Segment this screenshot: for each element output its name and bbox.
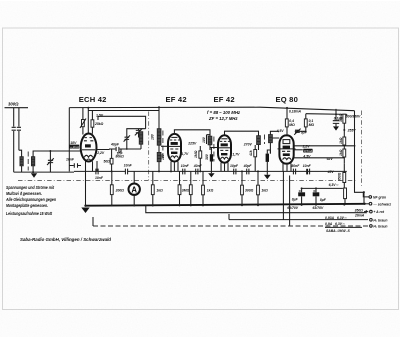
- svg-text:10pF: 10pF: [230, 164, 239, 168]
- tube V1 ECH42 envelope: [81, 134, 97, 162]
- terminal schwarz: [369, 202, 372, 205]
- svg-text:200Ω: 200Ω: [115, 188, 125, 192]
- label 0,5mA black: [303, 149, 312, 153]
- capacitor C7: [109, 148, 128, 150]
- V2 grid through line: [169, 145, 181, 147]
- wire L2 to grid: [33, 151, 81, 157]
- wire rail to IF1: [158, 107, 160, 128]
- core L1/L2: [27, 152, 29, 171]
- V2 internal grids: [170, 139, 180, 141]
- svg-text:SABA–UKW–S: SABA–UKW–S: [326, 229, 350, 233]
- wire c8: [127, 129, 146, 149]
- svg-text:H₂ braun: H₂ braun: [373, 225, 387, 229]
- V3 heater arcs: [221, 157, 229, 159]
- antenna T bar: [5, 107, 29, 109]
- svg-text:300/350V: 300/350V: [346, 115, 361, 119]
- capacitor C5 10n: [96, 169, 98, 175]
- svg-text:300: 300: [205, 154, 209, 160]
- V2 grid dashes2: [170, 148, 178, 150]
- svg-text:40nF: 40nF: [193, 164, 203, 168]
- node bottom: [32, 171, 34, 173]
- svg-text:— schwarz: — schwarz: [372, 202, 391, 206]
- svg-text:1kΩ: 1kΩ: [339, 149, 343, 156]
- V2 heater arcs: [171, 156, 179, 158]
- wire V2 grid line: [161, 145, 168, 147]
- wire grid left into tube: [69, 146, 72, 148]
- resistor R17: [179, 171, 181, 205]
- svg-text:1kΩ: 1kΩ: [339, 137, 343, 144]
- screen rail right: [306, 113, 347, 116]
- wire to trimmer C3: [49, 151, 51, 160]
- svg-text:ZF = 12,7 MHz: ZF = 12,7 MHz: [208, 116, 238, 121]
- antenna lead 2: [18, 108, 20, 151]
- coil L8: [269, 135, 273, 143]
- svg-text:3MΩ: 3MΩ: [182, 188, 190, 192]
- trimmer C8 4p: [125, 137, 130, 139]
- ground antenna: [31, 173, 37, 177]
- capacitor antenna 2: [17, 127, 21, 130]
- capacitor antenna 1: [12, 127, 16, 130]
- wire grid EQ80: [272, 130, 305, 138]
- capacitor C17: [333, 121, 339, 124]
- resistor R16 1k: [152, 171, 154, 205]
- svg-text:Saba-Radio GmbH, Villingen / S: Saba-Radio GmbH, Villingen / Schwarzwald: [20, 237, 111, 242]
- bus junction dots: [111, 205, 113, 207]
- wire rail to IF2: [207, 135, 211, 144]
- svg-text:H₁ braun: H₁ braun: [373, 218, 387, 222]
- node dots on line: [170, 170, 172, 172]
- svg-text:1kΩ: 1kΩ: [156, 188, 163, 192]
- V4 inner grid dashes: [282, 150, 290, 152]
- svg-text:10nF: 10nF: [124, 164, 133, 168]
- coil L7 IF3 primary: [257, 136, 261, 145]
- V4 heater arcs: [283, 158, 291, 160]
- svg-text:80kΩ: 80kΩ: [116, 155, 125, 159]
- svg-text:+ A rot: + A rot: [373, 210, 384, 214]
- svg-text:Montageplatte gemessen.: Montageplatte gemessen.: [6, 203, 48, 208]
- resistor R11: [343, 137, 346, 145]
- svg-text:50nF: 50nF: [291, 164, 300, 168]
- ground EQ80: [264, 175, 271, 180]
- arrow A plus: [364, 210, 367, 211]
- svg-text:25kΩ: 25kΩ: [94, 122, 104, 126]
- osc box top wire: [98, 116, 146, 128]
- shield IF1 dash-dot: [148, 112, 150, 181]
- V4 grid through line: [278, 148, 296, 150]
- core IF2: [213, 137, 215, 162]
- svg-text:1kΩ: 1kΩ: [261, 189, 268, 193]
- wire antenna to coil L1: [19, 150, 22, 157]
- wire V3 anode jog: [225, 131, 259, 135]
- resistor R1: [82, 120, 85, 127]
- wire trimmer to bottom: [49, 163, 51, 172]
- resistor R6: [254, 150, 257, 157]
- svg-text:41k: 41k: [249, 149, 253, 157]
- svg-text:30kΩ: 30kΩ: [339, 113, 343, 122]
- tube V2 EF42 envelope: [168, 134, 181, 162]
- svg-text:350Ω: 350Ω: [338, 172, 342, 181]
- terminal H1: [370, 219, 373, 222]
- V1 grid line: [82, 149, 95, 151]
- svg-text:225V: 225V: [187, 142, 197, 146]
- svg-text:NF grün: NF grün: [373, 196, 386, 200]
- label 0,4mA black box: [69, 145, 79, 149]
- svg-text:ECH 42: ECH 42: [79, 95, 107, 104]
- bottom wire left: [14, 171, 74, 173]
- svg-text:A: A: [131, 185, 137, 194]
- svg-text:2,2V: 2,2V: [96, 151, 105, 155]
- heater H1 line: [229, 214, 368, 220]
- resistor R3 50ohm: [110, 158, 113, 164]
- svg-text:100: 100: [151, 134, 155, 140]
- wire rail to ECH42 anode: [87, 108, 89, 134]
- node c7: [126, 148, 128, 150]
- resistor R21 1k: [257, 171, 259, 205]
- coil L5 IF1 secondary: [157, 152, 161, 161]
- svg-text:350Ω: 350Ω: [355, 208, 364, 212]
- wire V2 pins down: [171, 161, 178, 171]
- long line under tubes: [74, 170, 347, 172]
- wire grid2: [97, 148, 109, 151]
- svg-text:0,5mA: 0,5mA: [304, 149, 312, 153]
- svg-text:100: 100: [202, 137, 206, 143]
- svg-text:1MΩ: 1MΩ: [194, 150, 198, 158]
- svg-text:63/70V: 63/70V: [287, 206, 298, 210]
- svg-text:300Ω: 300Ω: [8, 102, 19, 107]
- resistor R10 30k: [343, 114, 346, 123]
- V1 cathode blob: [85, 144, 91, 147]
- resistor R20 300: [241, 171, 243, 205]
- ground main: [81, 208, 89, 214]
- heater H2 line dashed: [93, 225, 368, 227]
- svg-text:6,3V∼: 6,3V∼: [329, 183, 339, 187]
- svg-text:10nF: 10nF: [303, 164, 312, 168]
- antenna lead 1: [13, 108, 15, 172]
- tube V4 EQ80 envelope: [279, 135, 293, 163]
- resistor R8 0,1M: [304, 119, 307, 127]
- wire V1 pin2 down: [96, 161, 98, 171]
- svg-text:8µF: 8µF: [320, 198, 327, 202]
- svg-text:300Ω: 300Ω: [245, 189, 254, 193]
- ground C17: [333, 126, 339, 130]
- wire V4 pins down: [283, 163, 291, 171]
- wire V1 cathode down: [85, 161, 87, 205]
- svg-text:MΩ: MΩ: [309, 123, 315, 127]
- wire V2 anode jog: [174, 130, 210, 136]
- svg-text:45V: 45V: [327, 170, 335, 174]
- wire L8 down: [270, 131, 279, 153]
- wire EQ80 out to right column: [294, 146, 356, 158]
- svg-text:0,18mA: 0,18mA: [289, 109, 302, 113]
- svg-text:0,9A 6,3V∼: 0,9A 6,3V∼: [325, 222, 345, 226]
- svg-text:0,93A 6,3V∼: 0,93A 6,3V∼: [325, 216, 347, 220]
- wires V4 right side: [294, 149, 303, 151]
- coil L2 secondary: [31, 157, 34, 166]
- svg-text:50Ω: 50Ω: [104, 160, 111, 164]
- terminal NF gruen: [369, 196, 372, 199]
- svg-text:Alle Gleichspannungen gegen: Alle Gleichspannungen gegen: [5, 197, 56, 202]
- V4 inner blob2: [283, 153, 290, 156]
- V3 grid through line: [219, 147, 231, 149]
- svg-text:MΩ: MΩ: [289, 123, 295, 127]
- capacitor C4 10n: [69, 165, 81, 167]
- resistor R14 350: [344, 188, 347, 199]
- svg-text:10nF: 10nF: [66, 157, 75, 161]
- wire V3 grid: [210, 147, 218, 149]
- wire L6 bottom: [209, 145, 211, 150]
- wire V3 pins down: [221, 163, 228, 172]
- wire L1 bottom: [21, 166, 23, 172]
- V3 anode plate: [221, 138, 227, 140]
- wire rail to C17: [335, 109, 337, 127]
- resistor R19 1k: [202, 171, 204, 205]
- resistor R18: [190, 171, 192, 205]
- osc second rail: [88, 110, 159, 112]
- wire rail to EQ80 anode: [286, 108, 288, 135]
- V4 anode box: [283, 140, 290, 144]
- top rail: [69, 107, 354, 111]
- chassis dash line: [18, 180, 357, 182]
- resistor R7 0,4M: [285, 119, 288, 127]
- resistor R15 200: [111, 171, 113, 205]
- svg-text:10nF: 10nF: [95, 176, 104, 180]
- dash-dot screen right: [361, 111, 363, 189]
- wire EQ80 pins to bus: [283, 171, 289, 226]
- V3 grid dashes2: [220, 149, 228, 151]
- svg-text:40pF: 40pF: [243, 164, 253, 168]
- V4 inner blob1: [283, 146, 290, 149]
- coil L6 IF2 primary: [208, 136, 212, 145]
- tube V3 EF42 envelope: [218, 135, 231, 162]
- terminal H2: [370, 225, 373, 228]
- svg-text:270V: 270V: [243, 142, 253, 146]
- core IF3: [264, 135, 266, 145]
- svg-text:1,7V: 1,7V: [181, 152, 189, 156]
- capacitor C18 8uF electrolytic: [301, 188, 303, 205]
- trimmer C3: [48, 160, 53, 162]
- svg-text:1,7V: 1,7V: [232, 152, 240, 156]
- svg-text:8µF: 8µF: [292, 198, 299, 202]
- svg-text:Multavi Ⅱ gemessen.: Multavi Ⅱ gemessen.: [6, 191, 42, 196]
- resistor R2 25k: [91, 120, 94, 127]
- meter M1: [129, 184, 140, 195]
- svg-text:40pF: 40pF: [110, 142, 120, 146]
- terminal A rot: [370, 210, 373, 213]
- V3 inner blob: [221, 143, 228, 146]
- wire V1 pin down: [92, 161, 94, 171]
- svg-text:26mA: 26mA: [354, 214, 365, 218]
- wire L7 bottom: [258, 145, 260, 150]
- ground under R5: [208, 173, 214, 177]
- V2 inner blob: [171, 142, 178, 145]
- resistor R13: [343, 173, 346, 183]
- resistor R4: [199, 151, 202, 158]
- resistor R9 black: [266, 154, 269, 162]
- core IF1: [162, 131, 164, 161]
- NF vertical wire: [355, 111, 370, 197]
- heater line top wire: [302, 187, 343, 189]
- V1 internal grids: [84, 140, 93, 142]
- V2 inner blob2: [171, 152, 177, 154]
- V1 heater arcs: [84, 155, 92, 157]
- wire L2 bottom: [32, 166, 34, 172]
- coil L4 IF1 primary: [157, 129, 161, 146]
- svg-text:EF 42: EF 42: [166, 95, 187, 104]
- main ground bus: [86, 204, 365, 206]
- wire L4 bottom: [158, 145, 160, 152]
- svg-text:10nF: 10nF: [181, 164, 190, 168]
- svg-text:f = 88 – 100 MHz: f = 88 – 100 MHz: [207, 110, 241, 115]
- wire L5 bottom: [158, 162, 160, 172]
- wire L3 bottom: [140, 144, 142, 149]
- resistor R12: [343, 149, 346, 157]
- coil L1 primary: [20, 157, 23, 166]
- osc coil L3: [139, 132, 143, 145]
- trimmer C14 6p: [295, 130, 300, 132]
- oscillator box left wire: [68, 108, 70, 172]
- svg-text:1kΩ: 1kΩ: [207, 189, 214, 193]
- svg-text:EF 42: EF 42: [214, 95, 235, 104]
- capacitor C19 8uF electrolytic: [315, 188, 317, 205]
- svg-text:Leistungsaufnahme 15 Watt: Leistungsaufnahme 15 Watt: [6, 211, 52, 216]
- V3 internal grids: [220, 140, 230, 142]
- resistor R5 black: [210, 154, 213, 161]
- wire rail end down: [344, 114, 347, 116]
- svg-text:63/70V: 63/70V: [313, 206, 324, 210]
- V2 anode plate: [171, 136, 177, 138]
- wire c7 right to coil: [118, 149, 141, 152]
- svg-text:1,5V: 1,5V: [96, 114, 104, 118]
- svg-text:EQ 80: EQ 80: [276, 95, 299, 104]
- V3 inner blob2: [221, 153, 227, 155]
- node grid junction: [49, 150, 51, 152]
- svg-text:Spannungen und Ströme mit: Spannungen und Ströme mit: [6, 185, 54, 190]
- A plus line: [146, 206, 367, 213]
- trimmer C6 osc: [138, 129, 140, 130]
